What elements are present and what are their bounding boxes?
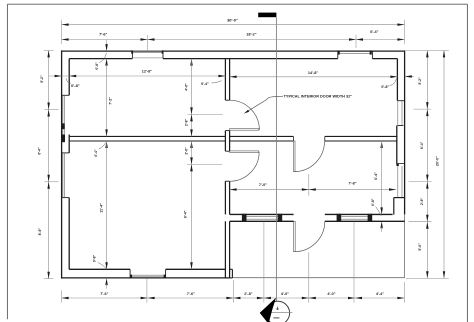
svg-text:0'-8": 0'-8" — [95, 62, 99, 70]
svg-text:4'-4": 4'-4" — [376, 292, 384, 296]
svg-text:7'-0": 7'-0" — [259, 183, 267, 187]
svg-text:5'-2": 5'-2" — [40, 75, 44, 83]
svg-text:14'-8": 14'-8" — [308, 71, 319, 75]
svg-text:0'-8": 0'-8" — [371, 198, 375, 206]
svg-text:4'-0": 4'-0" — [281, 292, 289, 296]
svg-text:0'-4": 0'-4" — [201, 82, 209, 86]
svg-text:30'-0": 30'-0" — [227, 17, 238, 22]
svg-text:18'-2": 18'-2" — [246, 32, 257, 36]
svg-text:TYPICAL INTERIOR DOOR WIDTH 32: TYPICAL INTERIOR DOOR WIDTH 32" — [284, 94, 353, 98]
svg-text:6'-4": 6'-4" — [38, 147, 42, 155]
svg-text:2'-6": 2'-6" — [420, 197, 424, 205]
svg-text:6'-4": 6'-4" — [370, 30, 378, 34]
svg-text:7'-8": 7'-8" — [348, 181, 356, 185]
svg-text:4'-6": 4'-6" — [184, 83, 188, 91]
svg-text:0'-4": 0'-4" — [94, 149, 98, 157]
svg-text:7'-6": 7'-6" — [100, 292, 108, 296]
svg-text:6'-4": 6'-4" — [374, 172, 378, 180]
svg-text:0'-8": 0'-8" — [71, 83, 80, 88]
svg-text:2'-8": 2'-8" — [184, 118, 188, 126]
svg-text:7'-6": 7'-6" — [187, 292, 195, 296]
svg-text:11'-4": 11'-4" — [99, 203, 103, 213]
svg-text:5'-0": 5'-0" — [418, 243, 422, 251]
svg-text:2'-6": 2'-6" — [184, 147, 188, 155]
svg-text:7'-6": 7'-6" — [99, 33, 107, 37]
svg-text:20'-0": 20'-0" — [436, 156, 440, 166]
svg-text:0'-8": 0'-8" — [381, 85, 389, 89]
svg-text:9'-4": 9'-4" — [183, 210, 187, 218]
svg-text:4'-0": 4'-0" — [327, 292, 335, 296]
svg-text:0'-8": 0'-8" — [93, 254, 97, 262]
svg-text:2'-8": 2'-8" — [244, 292, 252, 296]
svg-text:5'-2": 5'-2" — [418, 77, 422, 85]
svg-text:8'-6": 8'-6" — [38, 228, 42, 236]
svg-text:12'-8": 12'-8" — [142, 70, 153, 74]
svg-text:6'-4": 6'-4" — [420, 141, 424, 149]
svg-text:7'-2": 7'-2" — [108, 97, 112, 105]
